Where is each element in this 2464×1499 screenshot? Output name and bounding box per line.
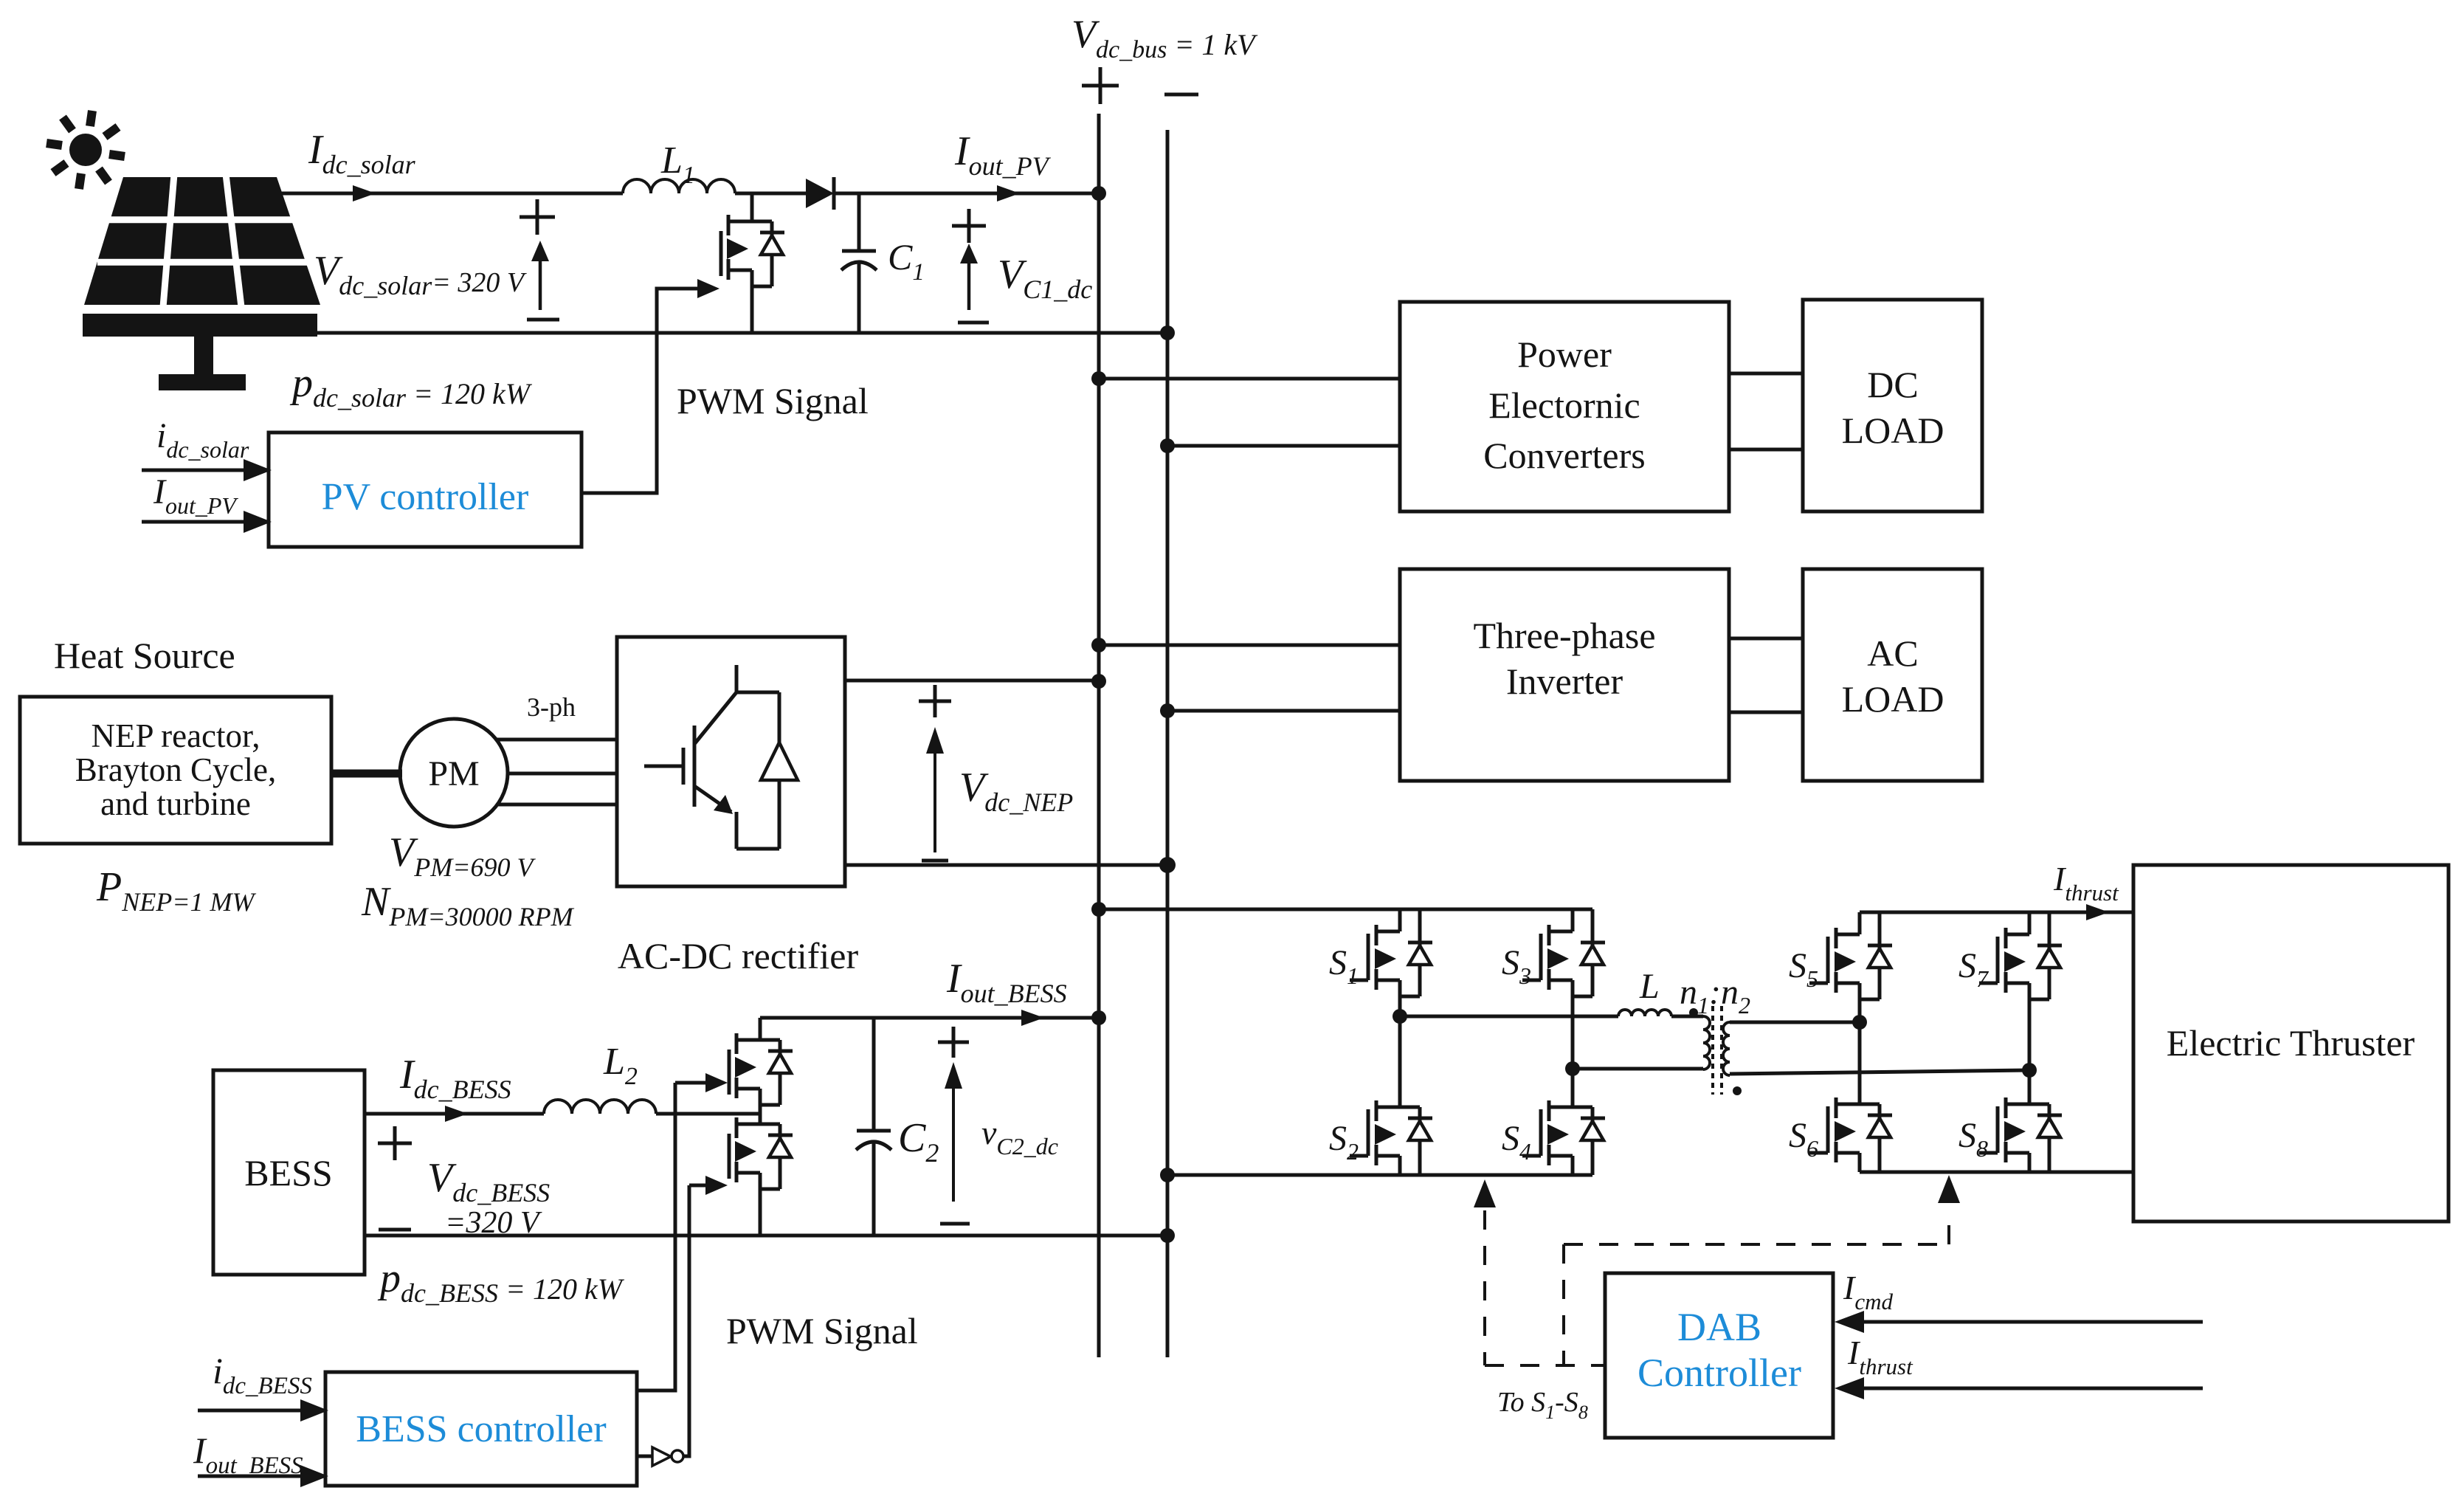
svg-text:LOAD: LOAD (1842, 410, 1944, 451)
wire secondary top to bridge2 (1730, 1021, 1860, 1024)
wire phase C (497, 803, 617, 807)
wire DAB negative rail (1167, 1174, 1592, 1177)
svg-text:BESS: BESS (244, 1152, 333, 1193)
wire bus to PEC negative (1167, 444, 1400, 448)
DC bus negative rail (1166, 130, 1170, 1357)
wire phase A (497, 738, 617, 742)
wire drain stub 2 (1398, 1016, 1402, 1107)
body diode of S6 (1878, 1104, 1882, 1172)
wire drain stub (750, 193, 754, 221)
svg-text:AC-DC rectifier: AC-DC rectifier (618, 935, 859, 976)
inductor L DAB (1618, 1010, 1671, 1016)
node bridge1 right midpoint (1565, 1061, 1580, 1076)
transformer core (1711, 1006, 1714, 1095)
PM generator (400, 719, 508, 827)
IGBT inside rectifier (735, 665, 739, 692)
body diode of S7 (2048, 912, 2051, 999)
mosfet S1 (1376, 930, 1400, 934)
wire drain stub 5 (1858, 912, 1862, 934)
svg-text:Controller: Controller (1638, 1351, 1801, 1395)
wire BESS converter positive rail (760, 1016, 1099, 1020)
svg-text:To S1-S8: To S1-S8 (1497, 1387, 1588, 1423)
arrow I_thrust (2086, 904, 2109, 920)
inductor L1 (623, 179, 735, 193)
svg-text:Converters: Converters (1483, 435, 1645, 476)
transformer T1 primary (1703, 1016, 1710, 1069)
wire phase B (508, 772, 617, 776)
wire PWM from PV controller (582, 289, 697, 493)
svg-text:Three-phase: Three-phase (1473, 615, 1655, 656)
svg-text:Electornic: Electornic (1488, 385, 1640, 426)
arrow V_dc_NEP (934, 733, 936, 852)
svg-text:PWM Signal: PWM Signal (677, 380, 869, 421)
mosfet S2 (1376, 1106, 1400, 1109)
transformer T1 secondary (1723, 1022, 1730, 1075)
body diode of S5 (1878, 912, 1882, 999)
svg-text:Inverter: Inverter (1506, 661, 1623, 702)
label V_dc_solar voltage (520, 216, 555, 219)
node BESS negative junction (1160, 1228, 1175, 1243)
node I_out_PV junction (1091, 186, 1106, 201)
arrow V_C1_dc (967, 263, 971, 310)
svg-text:Heat Source: Heat Source (54, 635, 235, 676)
wire diode to C1 node (834, 192, 859, 196)
wire bridge1 lower midpoint to transformer (1573, 1067, 1703, 1071)
wire drain stub 8 (2028, 1070, 2032, 1104)
svg-text:PM: PM (428, 754, 479, 793)
wire PWM upper gate (637, 1083, 675, 1391)
wire input I_cmd (1860, 1320, 2203, 1324)
AC-DC rectifier box (617, 637, 845, 886)
wire C1 node to DC bus (859, 192, 1099, 196)
node inverter negative tap (1160, 703, 1175, 718)
NEP reactor box (20, 697, 331, 844)
wire drain stub (759, 1114, 762, 1124)
wire secondary bottom to bridge2 (1730, 1070, 2029, 1074)
dashed gate drive to bridge1 (1474, 1179, 1496, 1207)
label V_dc_BESS plus (378, 1142, 412, 1145)
node PEC positive tap (1091, 371, 1106, 386)
wire drain stub 7 (2028, 912, 2032, 934)
node I_out_BESS junction (1091, 1010, 1106, 1025)
svg-text:3-ph: 3-ph (527, 692, 576, 722)
wire L2 to converter midpoint (656, 1112, 760, 1116)
PV controller box U1 (269, 433, 582, 547)
Electric Thruster box (2133, 865, 2449, 1221)
svg-text:L: L (1639, 967, 1660, 1006)
wire bus to inverter positive (1099, 644, 1400, 647)
mosfet S4 (1549, 1106, 1573, 1109)
svg-text:Power: Power (1517, 334, 1612, 375)
wire drain stub 3 (1571, 909, 1575, 931)
arrow v_C2_dc (952, 1068, 955, 1202)
body diode of S1 (1418, 909, 1422, 996)
svg-text:AC: AC (1867, 633, 1918, 674)
wire drain stub 1 (1398, 909, 1402, 931)
wire input I_out_BESS (198, 1475, 308, 1478)
DC bus positive rail (1097, 114, 1101, 1357)
wire drain stub (759, 1018, 762, 1040)
solar panel icon (83, 174, 320, 390)
node DAB positive tap (1091, 902, 1106, 917)
body diode of S2 (1418, 1107, 1422, 1175)
svg-text:NEP reactor,: NEP reactor, (92, 717, 260, 754)
wire L to transformer (1671, 1015, 1703, 1019)
AC LOAD box (1803, 569, 1982, 781)
wire BESS negative rail (365, 1234, 1167, 1238)
mosfet S8 (2006, 1103, 2029, 1106)
capacitor (872, 1018, 876, 1131)
shaft NEP to PM (331, 770, 402, 778)
mosfet (728, 220, 752, 224)
wire solar positive to L1 (274, 192, 623, 196)
inverter bubble on PWM (652, 1447, 671, 1466)
node inverter positive tap (1091, 638, 1106, 652)
node rectifier negative junction (1159, 857, 1176, 873)
DAB Controller box U3 (1605, 1273, 1833, 1438)
mosfet S5 (1836, 933, 1860, 937)
arrow I_dc_solar (353, 185, 376, 201)
wire drain stub 6 (1858, 1022, 1862, 1104)
wire input I_out_PV (142, 520, 251, 524)
bus minus sign (1164, 93, 1198, 97)
dashed gate drive to bridge2 (1562, 1244, 1565, 1365)
body diode (779, 1040, 782, 1105)
svg-text:PV controller: PV controller (322, 476, 529, 518)
wire PEC to DC LOAD upper (1729, 372, 1803, 376)
svg-text:Electric Thruster: Electric Thruster (2167, 1022, 2415, 1064)
arrow I_dc_BESS (445, 1106, 468, 1122)
transformer polarity dot secondary (1733, 1086, 1742, 1095)
mosfet (736, 1123, 760, 1126)
mosfet (736, 1038, 760, 1042)
bus plus sign (1082, 84, 1119, 88)
mosfet S3 (1549, 930, 1573, 934)
svg-text:PWM Signal: PWM Signal (726, 1310, 918, 1351)
arrow V_dc_solar (539, 260, 542, 310)
BESS controller box U2 (325, 1372, 637, 1486)
wire input i_dc_BESS (198, 1409, 308, 1413)
mosfet S7 (2006, 933, 2029, 937)
node bridge1 left midpoint (1393, 1009, 1407, 1024)
svg-text:BESS controller: BESS controller (356, 1408, 606, 1450)
node rectifier positive junction (1091, 674, 1106, 689)
wire inverter to AC LOAD lower (1729, 711, 1803, 714)
wire bus to PEC positive (1099, 377, 1400, 381)
body diode (779, 1124, 782, 1189)
inductor L2 (544, 1100, 656, 1114)
wire bridge2 positive rail (1860, 911, 2133, 914)
wire input i_dc_solar (142, 469, 251, 472)
mosfet S6 (1836, 1103, 1860, 1106)
svg-text:and turbine: and turbine (100, 785, 251, 822)
wire BESS positive to L2 (365, 1112, 544, 1116)
DC LOAD box (1803, 300, 1982, 511)
node bridge2 right midpoint (2022, 1063, 2037, 1078)
wire rectifier positive to bus (845, 679, 1099, 683)
svg-text:DC: DC (1867, 364, 1918, 405)
label v_C2_dc plus (938, 1041, 969, 1044)
wire PWM lower gate with inverter (637, 1455, 652, 1458)
wire input I_thrust feedback (1860, 1387, 2203, 1391)
wire L1 to diode (735, 192, 806, 196)
wire PEC to DC LOAD lower (1729, 448, 1803, 452)
node PEC negative tap (1160, 438, 1175, 453)
body diode (770, 221, 774, 286)
BESS box (213, 1070, 365, 1275)
label V_dc_NEP plus (919, 700, 951, 703)
node DAB negative tap (1160, 1168, 1175, 1182)
sun icon (46, 111, 125, 189)
Power Electronic Converters box (1400, 302, 1729, 511)
node bridge2 left midpoint (1852, 1015, 1867, 1030)
wire bridge1 midpoint to L (1400, 1015, 1618, 1019)
wire inverter to AC LOAD upper (1729, 637, 1803, 641)
free-wheel diode of rectifier IGBT (778, 692, 781, 742)
body diode of S4 (1591, 1107, 1595, 1175)
svg-text:DAB: DAB (1677, 1305, 1761, 1349)
wire drain stub 4 (1571, 1069, 1575, 1107)
transformer polarity dot primary (1689, 1008, 1698, 1017)
capacitor (857, 193, 861, 251)
body diode of S8 (2048, 1104, 2051, 1172)
svg-text:Brayton Cycle,: Brayton Cycle, (75, 751, 276, 788)
diode D1 boost output (806, 179, 834, 208)
node solar negative junction (1160, 325, 1175, 340)
wire DAB positive rail (1099, 908, 1592, 912)
arrow I_out_BESS (1021, 1010, 1044, 1026)
wire bus to inverter negative (1167, 709, 1400, 713)
Three-phase Inverter box (1400, 569, 1729, 781)
svg-text:LOAD: LOAD (1842, 678, 1944, 720)
wire bridge2 negative rail (1860, 1171, 2133, 1174)
wire rectifier negative to bus (845, 864, 1167, 867)
label V_C1_dc plus (952, 224, 986, 228)
arrow I_out_PV (997, 185, 1020, 201)
wire solar negative rail (317, 331, 1167, 335)
body diode of S3 (1591, 909, 1595, 996)
